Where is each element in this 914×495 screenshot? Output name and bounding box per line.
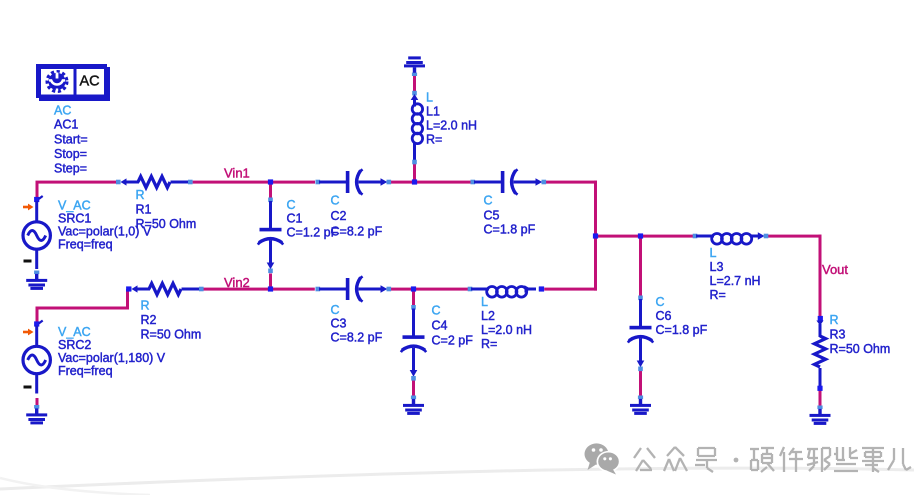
svg-text:L: L [426, 91, 433, 105]
svg-text:R: R [141, 299, 150, 313]
C4 labels [432, 304, 474, 348]
ground of C6 [630, 396, 651, 415]
wire Vin2 segment R2 to C3 [202, 288, 315, 291]
wire right vertical bus x=595 [594, 181, 597, 291]
R3 labels [830, 313, 891, 356]
svg-text:Freq=freq: Freq=freq [58, 364, 113, 378]
svg-text:C: C [484, 194, 493, 208]
wire Vin1 segment C2 to C5 through L1 node [390, 181, 470, 184]
capacitor C2 (series on Vin1) [316, 169, 392, 194]
svg-text:Vout: Vout [822, 262, 848, 277]
wire top ground to L1 [413, 76, 416, 94]
svg-text:AC1: AC1 [54, 118, 78, 132]
svg-text:C=8.2 pF: C=8.2 pF [331, 225, 383, 239]
node Vin1 [224, 166, 250, 181]
SRC2 labels [58, 325, 166, 378]
inductor L2 (series on Vin2) [468, 285, 544, 297]
node Vin2 [224, 275, 250, 290]
L3 labels [710, 246, 761, 302]
wire Vin1 segment R1 to C2 [193, 181, 315, 184]
wire SRC1 vertical drop [36, 181, 39, 198]
C6 labels [656, 295, 708, 337]
svg-text:C6: C6 [656, 309, 672, 323]
capacitor C5 (series to output) [471, 169, 547, 194]
ac source SRC1 [23, 196, 50, 269]
wire Vin1 segment C5 to right corner [544, 181, 597, 184]
wire Vin2 node to C4 [412, 290, 415, 306]
SRC2 plus polarity arrow [23, 329, 34, 336]
resistor R2 [127, 283, 204, 294]
svg-text:L=2.7 nH: L=2.7 nH [710, 274, 761, 288]
svg-text:C: C [287, 198, 296, 212]
svg-text:C: C [432, 304, 441, 318]
wire Vin1 left segment from SRC1 to R1 [36, 181, 117, 184]
svg-text:R: R [136, 188, 145, 202]
capacitor C1 (vertical, Vin1 to Vin2) [258, 198, 283, 274]
L2 right node square [539, 286, 544, 291]
watermark text gongzhonghao yingjian naxie shier [634, 447, 911, 472]
wire C4 to ground [412, 381, 415, 397]
wire SRC2 to ground segment [36, 398, 39, 406]
C3 labels [331, 303, 383, 345]
wire SRC2 riser to R2 corner [126, 289, 129, 310]
svg-text:R3: R3 [830, 328, 846, 342]
ground of C4 [403, 396, 424, 415]
svg-text:L1: L1 [426, 105, 440, 119]
decorative swoosh [0, 468, 914, 495]
junction node Vin1/L1 [412, 179, 417, 184]
wire Vin1 node to C1 [269, 183, 272, 199]
SRC2 minus polarity mark [24, 386, 32, 389]
wire SRC2 horizontal run [36, 307, 130, 310]
svg-text:C=2 pF: C=2 pF [432, 334, 474, 348]
capacitor C3 (series on Vin2) [316, 276, 392, 301]
svg-text:C1: C1 [287, 212, 303, 226]
svg-text:AC: AC [80, 74, 100, 90]
SRC1 minus polarity mark [24, 260, 32, 263]
ac source SRC2 [23, 321, 50, 394]
AC controller labels AC1 Start Stop Step [54, 104, 88, 176]
svg-text:Step=: Step= [54, 162, 87, 176]
svg-text:Stop=: Stop= [54, 147, 87, 161]
C5 labels [484, 194, 536, 237]
wire L1 to Vin1 node [413, 164, 416, 184]
svg-text:C5: C5 [484, 209, 500, 223]
svg-text:R: R [830, 313, 839, 327]
wire Vin2 segment C3 to L2 [390, 288, 468, 291]
junction node Vin1/C1 [268, 179, 273, 184]
wire output row right of L3 [768, 235, 822, 238]
inductor L3 (series to Vout) [693, 232, 769, 244]
R2 corner node square [126, 286, 131, 291]
wechat watermark icon [585, 443, 621, 474]
svg-text:Start=: Start= [54, 133, 88, 147]
svg-text:L: L [481, 295, 488, 309]
svg-text:L2: L2 [481, 309, 495, 323]
resistor R1 [116, 176, 193, 187]
ground of SRC2 [26, 405, 47, 424]
svg-text:AC: AC [54, 104, 71, 118]
svg-text:C=8.2 pF: C=8.2 pF [331, 331, 383, 345]
svg-text:C4: C4 [432, 319, 448, 333]
wire Vin2 segment L2 to right corner [544, 288, 597, 291]
svg-text:C=1.8 pF: C=1.8 pF [484, 223, 536, 237]
svg-text:Vin1: Vin1 [224, 166, 250, 181]
svg-text:R=50 Ohm: R=50 Ohm [830, 342, 891, 356]
svg-text:R=: R= [426, 133, 442, 147]
wire SRC2 vertical drop [36, 307, 39, 324]
svg-text:R1: R1 [136, 203, 152, 217]
svg-text:R=50 Ohm: R=50 Ohm [141, 328, 202, 342]
svg-text:C3: C3 [331, 317, 347, 331]
capacitor C6 (shunt at output) [628, 296, 653, 372]
junction node Vin2/C1 [268, 286, 273, 291]
svg-text:Vac=polar(1,180) V: Vac=polar(1,180) V [58, 351, 166, 365]
svg-text:SRC1: SRC1 [58, 212, 91, 226]
svg-text:C: C [331, 194, 340, 208]
resistor R3 [814, 316, 825, 391]
svg-text:L: L [710, 246, 717, 260]
junction node Vin2/C4 [411, 286, 416, 291]
ground above L1 (inverted) [404, 56, 425, 76]
ground of SRC1 [26, 271, 47, 290]
AC simulation controller box [36, 64, 110, 101]
svg-text:R=50 Ohm: R=50 Ohm [136, 217, 197, 231]
SRC1 labels [58, 199, 152, 252]
svg-text:R=: R= [481, 337, 497, 351]
wire R3 to ground [819, 390, 822, 407]
svg-text:L=2.0 nH: L=2.0 nH [481, 323, 532, 337]
svg-text:C: C [656, 295, 665, 309]
svg-text:SRC2: SRC2 [58, 338, 91, 352]
svg-text:V_AC: V_AC [58, 199, 91, 213]
R1 labels [136, 188, 197, 231]
wire Vout vertical drop to R3 [819, 235, 822, 317]
node Vout [822, 262, 848, 277]
junction node output/C6 [638, 233, 643, 238]
svg-text:C: C [331, 303, 340, 317]
wire output node to C6 [639, 238, 642, 298]
svg-text:L=2.0 nH: L=2.0 nH [426, 119, 477, 133]
svg-text:Vin2: Vin2 [224, 275, 250, 290]
svg-text:R2: R2 [141, 313, 157, 327]
inductor L1 (shunt to top ground) [411, 91, 423, 165]
L2 labels [481, 295, 532, 351]
capacitor C4 (shunt to ground) [401, 305, 426, 381]
svg-text:C=1.8 pF: C=1.8 pF [656, 323, 708, 337]
svg-text:R=: R= [710, 288, 726, 302]
ground of R3 [810, 406, 831, 425]
C1 labels [287, 198, 339, 240]
wire output row left of L3 [594, 235, 696, 238]
svg-text:L3: L3 [710, 260, 724, 274]
junction node output/bus [593, 233, 598, 238]
L1 labels [426, 91, 477, 147]
svg-text:C2: C2 [331, 209, 347, 223]
SRC1 plus polarity arrow [23, 204, 34, 211]
svg-text:V_AC: V_AC [58, 325, 91, 339]
wire C1 to Vin2 node [269, 274, 272, 291]
svg-text:Freq=freq: Freq=freq [58, 238, 113, 252]
C2 labels [331, 194, 383, 239]
R2 labels [141, 299, 202, 342]
wire C6 to ground [639, 369, 642, 397]
